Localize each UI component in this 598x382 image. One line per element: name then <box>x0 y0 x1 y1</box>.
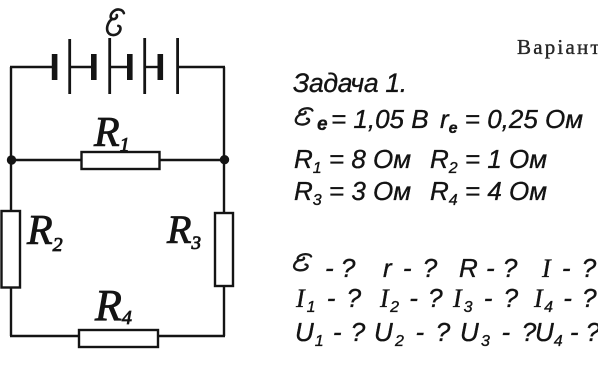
wire right vertical <box>223 67 225 336</box>
wire bottom row <box>10 335 225 337</box>
script-E in unknowns line <box>294 254 311 270</box>
svg-text:R2: R2 <box>26 208 63 256</box>
wire top-left to battery <box>10 66 52 68</box>
resistor R1 <box>82 152 160 169</box>
wire battery cell1 to cell2 <box>70 66 92 68</box>
wire left vertical <box>10 67 12 336</box>
script-E in EMF value line <box>296 108 313 124</box>
svg-text:R1: R1 <box>93 110 130 156</box>
line EMF value <box>317 115 328 134</box>
battery cell 2 short plate <box>91 54 97 80</box>
battery cell 1 long plate <box>68 39 71 94</box>
wire battery cell2 to cell3 <box>110 66 128 68</box>
resistor R3 <box>215 213 233 286</box>
battery cell 4 short plate <box>158 54 164 80</box>
wire battery to top-right <box>177 66 225 68</box>
svg-text:R3: R3 <box>166 207 201 254</box>
battery cell 3 short plate <box>127 54 133 80</box>
line unknowns 2 <box>296 285 363 316</box>
line R3 R4 values <box>294 178 411 209</box>
line unknowns 1 <box>325 255 355 281</box>
resistor R2 <box>2 211 21 288</box>
EMF label script-E <box>107 9 124 35</box>
svg-text:R4: R4 <box>94 281 132 330</box>
node right junction <box>220 155 229 164</box>
heading Варіант <box>517 37 598 58</box>
battery cell 1 short plate <box>52 54 58 80</box>
battery cell 4 long plate <box>176 38 179 94</box>
line R1 R2 values <box>294 146 411 177</box>
wire battery cell3 to cell4 <box>145 66 158 68</box>
node left junction <box>7 155 16 164</box>
line unknowns 3 <box>295 319 366 350</box>
resistor R4 <box>79 330 158 347</box>
wire middle row <box>11 159 224 161</box>
battery cell 2 long plate <box>108 38 111 94</box>
battery cell 3 long plate <box>143 38 146 94</box>
title Задача 1. <box>293 70 407 97</box>
